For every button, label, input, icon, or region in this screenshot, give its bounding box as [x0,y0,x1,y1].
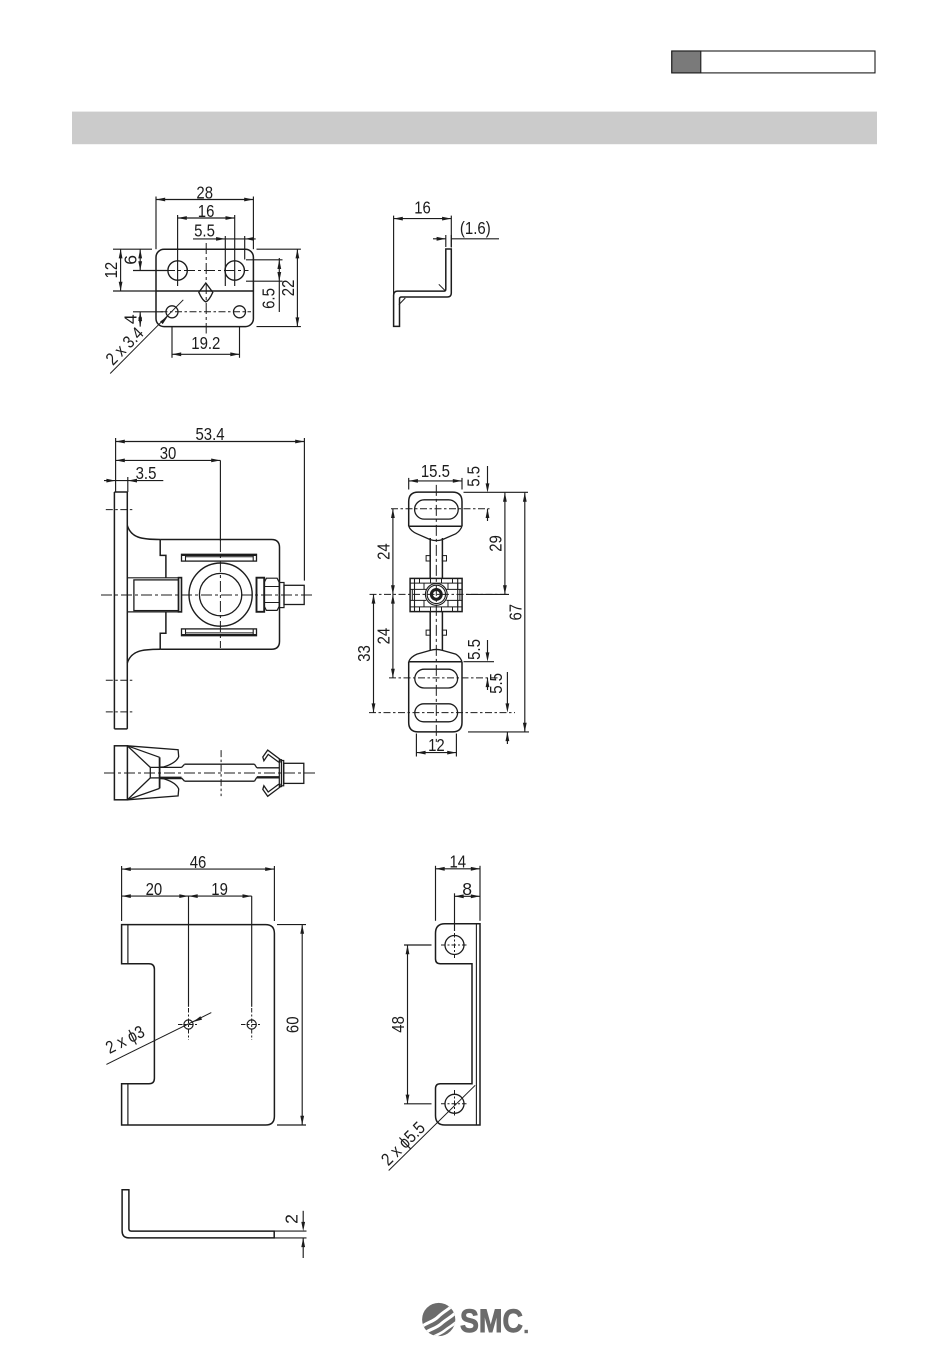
svg-text:20: 20 [146,879,163,899]
svg-text:28: 28 [196,182,213,202]
svg-text:16: 16 [198,201,215,221]
svg-text:4: 4 [121,314,141,324]
svg-text:SMC: SMC [460,1303,523,1339]
svg-text:2 x ϕ3: 2 x ϕ3 [102,1021,148,1057]
svg-text:60: 60 [283,1016,303,1033]
svg-text:48: 48 [388,1016,408,1033]
svg-text:30: 30 [160,443,177,463]
svg-text:5.5: 5.5 [194,221,215,241]
svg-text:2 x ϕ5.5: 2 x ϕ5.5 [377,1118,429,1170]
svg-text:12: 12 [101,262,121,279]
svg-text:2 x 3.4: 2 x 3.4 [102,323,148,369]
svg-text:8: 8 [462,879,472,899]
svg-text:3.5: 3.5 [136,463,157,483]
svg-text:19: 19 [211,879,228,899]
svg-text:6: 6 [121,255,141,265]
svg-text:16: 16 [414,198,431,218]
svg-text:29: 29 [485,535,505,552]
svg-text:46: 46 [190,852,207,872]
svg-text:22: 22 [278,280,298,297]
svg-text:12: 12 [428,735,445,755]
svg-text:5.5: 5.5 [464,639,484,660]
svg-text:67: 67 [505,604,525,621]
svg-text:5.5: 5.5 [464,466,484,487]
svg-text:24: 24 [373,628,393,645]
svg-text:53.4: 53.4 [195,424,224,444]
svg-text:14: 14 [450,852,467,872]
svg-text:33: 33 [354,645,374,662]
svg-text:24: 24 [373,543,393,560]
svg-text:19.2: 19.2 [191,333,220,353]
svg-text:2: 2 [282,1214,302,1224]
svg-text:15.5: 15.5 [421,461,450,481]
svg-text:6.5: 6.5 [259,288,279,309]
svg-text:5.5: 5.5 [486,673,506,694]
svg-text:(1.6): (1.6) [460,218,491,238]
